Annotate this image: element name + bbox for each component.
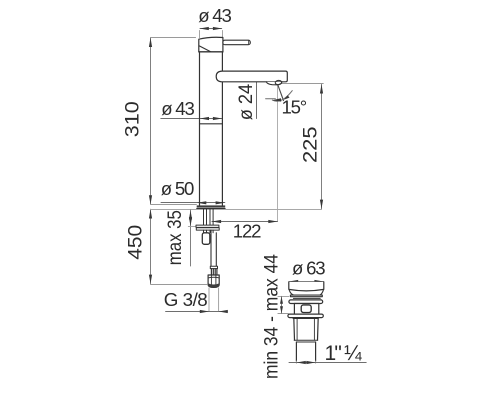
dimension 1"1/4: extension lines bbox=[296, 361, 315, 363]
dimension G3/8: right arrow (pointing left) bbox=[219, 310, 228, 313]
dimension ø43 top: right arrow bbox=[213, 27, 222, 30]
svg-text:ø 43: ø 43 bbox=[161, 98, 194, 119]
drain funnel right side bbox=[320, 290, 324, 295]
dimension 15 deg: jet direction line bbox=[278, 85, 284, 101]
svg-text:G 3/8: G 3/8 bbox=[164, 289, 207, 310]
hose crimp ribs bbox=[211, 269, 217, 275]
lever handle: end cap line bbox=[248, 41, 250, 45]
dimension max35: tick to nut bbox=[188, 226, 196, 228]
dimension min34-max44: down arrow bbox=[280, 306, 283, 313]
svg-text:ø 43: ø 43 bbox=[198, 5, 231, 26]
G3/8 hose nut: bottom ellipse bbox=[208, 283, 219, 287]
faucet body: left edge bbox=[199, 52, 201, 206]
drain body window bbox=[301, 305, 311, 313]
dimension ø63: left arrow bbox=[289, 280, 298, 283]
dimension 450: dimension line bbox=[150, 209, 152, 283]
G3/8 hose nut: top bevel line bbox=[208, 276, 219, 279]
svg-text:ø 50: ø 50 bbox=[161, 178, 194, 199]
dimension 310: bottom arrow bbox=[149, 195, 152, 204]
short hose stub bbox=[202, 233, 210, 245]
dimension ø43 mid: left arrow bbox=[200, 117, 209, 120]
dimension ø43 mid: leader + dimension line bbox=[161, 118, 222, 120]
dimension 15 deg: arc arrow bbox=[272, 98, 281, 101]
dimension max35: down arrow bbox=[189, 217, 192, 226]
svg-text:max 35: max 35 bbox=[165, 210, 186, 265]
drain lower flange bbox=[288, 314, 323, 318]
dimension 310: dimension line bbox=[150, 38, 152, 204]
dimension 1"1/4: left arrow bbox=[297, 361, 306, 364]
drain body bbox=[294, 304, 318, 315]
dimension 450: bottom extension line bbox=[151, 284, 207, 286]
spout (capsule) bbox=[216, 71, 287, 82]
dimension 450: bottom arrow bbox=[149, 275, 152, 284]
dimension G3/8: extension lines bbox=[209, 288, 219, 312]
svg-text:15°: 15° bbox=[282, 97, 307, 118]
dimension 122: dimension line bbox=[212, 221, 278, 223]
dimension 122: left arrow bbox=[212, 220, 221, 223]
drain step bbox=[294, 339, 318, 341]
dimension max35: dimension line bbox=[190, 210, 192, 266]
deck surface line bbox=[151, 209, 322, 211]
faucet body: right edge upper bbox=[221, 52, 223, 72]
dimension 122: extension line from aerator down bbox=[277, 86, 279, 222]
dimension ø43 top: extension lines bbox=[200, 31, 223, 39]
dimension ø43 top: left arrow bbox=[200, 27, 209, 30]
dimension min34-max44: dimension line bbox=[281, 296, 283, 313]
dimension 225: dimension line bbox=[321, 84, 323, 209]
dimension 1"1/4: dimension line bbox=[289, 362, 366, 364]
dimension 310: top extension line bbox=[151, 37, 196, 39]
dimension ø50: right arrow bbox=[216, 201, 225, 204]
dimension min34-max44: up arrow bbox=[280, 297, 283, 304]
faucet head cap: bottom line bbox=[199, 51, 223, 53]
base flange (ø50 plate) bbox=[197, 205, 226, 207]
dimension 225: top arrow bbox=[320, 84, 323, 93]
shank stub below nut bbox=[204, 230, 214, 233]
dimension ø63: dimension line bbox=[289, 281, 323, 283]
dimension 225: top extension line from aerator bbox=[282, 83, 324, 85]
drain cap bbox=[289, 282, 324, 291]
hose crimp collar bbox=[210, 266, 217, 268]
svg-text:min 34 - max 44: min 34 - max 44 bbox=[262, 254, 283, 379]
dimension 122: right arrow bbox=[268, 220, 277, 223]
G3/8 hose nut bbox=[208, 275, 219, 287]
dimension G3/8: left arrow (pointing right) bbox=[200, 310, 209, 313]
svg-text:ø 24: ø 24 bbox=[236, 83, 257, 120]
svg-text:1" ¼: 1" ¼ bbox=[325, 342, 363, 365]
dimension max35: up arrow bbox=[189, 210, 192, 219]
long hose tube bbox=[211, 230, 216, 266]
dimension ø43 mid: right arrow bbox=[213, 117, 222, 120]
svg-text:310: 310 bbox=[123, 101, 144, 137]
dimension ø43 top: dimension line bbox=[200, 28, 222, 30]
drain lower flange underside bbox=[293, 318, 318, 320]
drain tube upper: outer walls bbox=[294, 318, 318, 341]
svg-text:450: 450 bbox=[126, 225, 147, 260]
dimension 15 deg: horizontal tick bbox=[266, 98, 276, 100]
drain upper flange bbox=[289, 300, 323, 304]
dimension ø63: right arrow bbox=[314, 280, 323, 283]
mounting nut: nut bar bbox=[196, 228, 219, 230]
dimension 1"1/4: right arrow bbox=[306, 361, 315, 364]
svg-text:225: 225 bbox=[300, 127, 321, 164]
aerator inner roll bbox=[275, 80, 282, 85]
dimension 310: bottom extension line bbox=[151, 204, 197, 206]
faucet head cap bbox=[199, 37, 223, 52]
drain tube upper: inner walls bbox=[297, 319, 314, 341]
dimension ø50: left arrow bbox=[197, 201, 206, 204]
drain skirt mid line bbox=[293, 297, 320, 299]
faucet head cap: diagonal parting line bbox=[199, 46, 211, 52]
dimension ø24: down arrow bbox=[255, 73, 258, 82]
drain funnel left side bbox=[289, 290, 294, 295]
dimension min34-max44: ticks bbox=[278, 296, 289, 313]
lever handle bbox=[223, 40, 250, 45]
dimension 15 deg: small arrow at jet line bbox=[284, 95, 290, 100]
svg-text:ø 63: ø 63 bbox=[292, 257, 325, 278]
dimension ø24: vertical line below spout bbox=[256, 72, 258, 119]
faucet body: right edge lower bbox=[221, 82, 223, 206]
drain rim band bbox=[290, 295, 322, 297]
drain bottom thread tube bbox=[296, 342, 315, 361]
dimension 225: bottom arrow bbox=[320, 200, 323, 209]
mounting shank lines bbox=[204, 209, 214, 225]
dimension 310: top arrow bbox=[149, 38, 152, 47]
aerator bump bbox=[266, 82, 282, 85]
base flange: inner line bbox=[197, 208, 226, 210]
dimension G3/8: dimension line bbox=[166, 311, 228, 313]
mounting nut: washer bar bbox=[196, 225, 219, 227]
G3/8 hose nut: facet lines bbox=[211, 275, 216, 287]
dimension 450: top arrow bbox=[149, 209, 152, 218]
svg-text:122: 122 bbox=[233, 221, 261, 242]
faucet body: seam line bbox=[200, 123, 223, 125]
dimension ø50: leader + dimension line bbox=[161, 202, 225, 204]
dimension ø24: up arrow bbox=[255, 71, 258, 80]
dimension 15 deg: angle arc bbox=[272, 91, 292, 102]
